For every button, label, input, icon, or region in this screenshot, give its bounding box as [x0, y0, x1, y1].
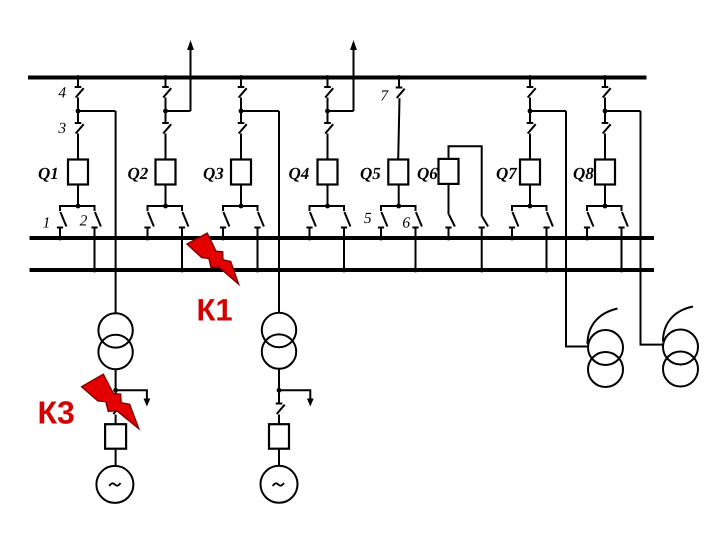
wire Q3 to lower disconnector [240, 111, 242, 123]
transformer T3 line tail [588, 309, 618, 345]
wire Q2 breaker to split [165, 185, 167, 207]
transformer T3 secondary winding [588, 352, 623, 387]
node Q1 on W3 [92, 268, 97, 273]
wire Q6 breaker to disconnector [448, 184, 450, 215]
node Q7 split [528, 204, 533, 209]
top busbar W1 [28, 76, 647, 80]
generator G2 tilde [273, 483, 284, 486]
circuit breaker Q1 [68, 160, 88, 185]
disconnector upper (Q8) [602, 87, 611, 98]
wire Q4 branch [328, 110, 354, 112]
node Q2 on W2 [145, 236, 150, 241]
svg-text:Q8: Q8 [573, 164, 594, 183]
wire chain1 to disconnector [115, 390, 117, 403]
svg-text:5: 5 [364, 210, 372, 227]
circuit breaker Q4 [318, 160, 338, 185]
node Q2 junction [163, 109, 168, 114]
wire Q3 split bar [223, 206, 258, 211]
bus selector disconnector left (Q2) [144, 212, 154, 228]
wire Q7 left to W2 [511, 228, 513, 239]
wire Q5 breaker to split [398, 185, 400, 207]
wire Q8 branch [605, 110, 641, 112]
svg-text:Q6: Q6 [417, 164, 438, 183]
node Q1 junction [76, 109, 81, 114]
wire T1 to node [115, 369, 117, 390]
circuit breaker Q7 [520, 160, 540, 185]
lower busbar W2 (section A) [30, 236, 655, 240]
wire Q4 to breaker [327, 134, 329, 160]
bus selector disconnector right (Q4) [341, 212, 351, 228]
node Q4 split [325, 204, 330, 209]
disconnector lower (Q3) [238, 123, 247, 134]
auxiliary tap wire chain1 [116, 390, 147, 399]
wire Q7 branch [530, 110, 566, 112]
wire chain2 to disconnector [278, 390, 280, 403]
bus selector disconnector right (Q3) [254, 212, 264, 228]
disconnector upper (Q4) [324, 87, 333, 98]
circuit breaker Q8 [595, 160, 615, 185]
wire Q1 to lower disconnector [77, 111, 79, 123]
transformer T1 primary winding [98, 313, 132, 347]
wire Q6 left to W2 [448, 228, 450, 239]
wire Q2 to breaker [165, 134, 167, 160]
outgoing line wire [353, 48, 355, 111]
wire Q5 to breaker [398, 98, 399, 159]
node Q8 on W2 [585, 236, 590, 241]
label 6 [402, 215, 410, 232]
transformer T1 secondary winding [98, 335, 132, 369]
bus selector disconnector right (Q2) [179, 212, 189, 228]
svg-text:Q5: Q5 [360, 164, 381, 183]
disconnector Q6 left [445, 215, 455, 228]
node Q8 split [603, 204, 608, 209]
wire Q4 right to W3 [343, 228, 345, 271]
wire Q8 breaker to split [604, 185, 606, 207]
label Q2 [128, 164, 149, 183]
wire Q1 branch to transformer T1 [115, 111, 117, 314]
transformer T3 primary winding [588, 330, 623, 365]
wire Q3 left to W2 [222, 228, 224, 239]
wire Q3 right to W3 [257, 228, 259, 271]
wire chain2 to generator [278, 449, 280, 466]
wire Q3 branch [241, 110, 279, 112]
wire Q4 split bar [310, 206, 345, 211]
svg-text:Q1: Q1 [38, 164, 59, 183]
bus selector disconnector left (Q3) [220, 212, 230, 228]
node on W1 for Q5 [397, 75, 402, 80]
svg-text:1: 1 [43, 215, 51, 232]
node on W1 for Q1 [76, 75, 81, 80]
wire Q8 to breaker [604, 134, 606, 160]
wire Q5 right to W3 [415, 228, 417, 271]
disconnector upper (Q1) [75, 87, 84, 98]
svg-text:4: 4 [58, 85, 66, 102]
generator G1 tilde [109, 483, 120, 486]
svg-text:Q3: Q3 [203, 164, 224, 183]
wire Q5 left to W2 [380, 228, 382, 239]
disconnector lower (Q4) [324, 123, 333, 134]
transformer T2 primary winding [262, 313, 296, 347]
wire Q3 branch to transformer T2 [278, 111, 280, 313]
bus selector disconnector 6 (Q5 right) [412, 212, 422, 228]
label 2 [80, 213, 88, 230]
bus selector disconnector right (Q8) [618, 212, 628, 228]
svg-text:К1: К1 [197, 293, 233, 328]
wire Q3 to junction [240, 98, 242, 112]
node Q4 on W2 [307, 236, 312, 241]
node Q1 split [76, 204, 81, 209]
outgoing line arrowhead [350, 40, 357, 50]
wire Q5 bus drop [398, 78, 400, 88]
wire Q2 split bar [148, 206, 183, 211]
wire Q6 jumper [449, 146, 482, 216]
node Q3 on W3 [255, 268, 260, 273]
auxiliary tap arrowhead chain1 [144, 399, 151, 407]
wire Q1 left to W2 [59, 228, 61, 239]
generator G1 [96, 466, 133, 503]
generator disconnector chain2 [276, 404, 285, 415]
node Q4 junction [325, 109, 330, 114]
wire Q7 branch to transformer T3 [566, 111, 588, 347]
svg-text:3: 3 [57, 120, 66, 137]
transformer T4 secondary winding [663, 352, 698, 387]
fault bolt K1 [187, 233, 239, 284]
circuit breaker Q3 [231, 160, 251, 185]
node Q3 on W2 [221, 236, 226, 241]
wire Q5 split bar [381, 206, 416, 211]
node Q6 on W3 [479, 268, 484, 273]
node Q7 on W2 [510, 236, 515, 241]
wire Q4 bus drop [327, 78, 329, 88]
outgoing line wire [190, 48, 192, 111]
bus selector disconnector right (Q1) [91, 212, 101, 228]
node Q5 split [396, 204, 401, 209]
disconnector lower (Q8) [602, 123, 611, 134]
bus selector disconnector 5 (Q5 left) [378, 212, 388, 228]
node Q2 split [163, 204, 168, 209]
label Q3 [203, 164, 224, 183]
generator G2 [261, 466, 298, 503]
disconnector upper (Q3) [238, 87, 247, 98]
disconnector upper (Q2) [162, 87, 171, 98]
label Q1 [38, 164, 59, 183]
label Q5 [360, 164, 381, 183]
node Q6 on W2 [446, 236, 451, 241]
disconnector upper (Q7) [527, 87, 536, 98]
wire Q7 right to W3 [546, 228, 548, 271]
disconnector lower (Q1) [75, 123, 84, 134]
node Q7 junction [528, 109, 533, 114]
wire Q7 to junction [529, 98, 531, 112]
wire Q1 breaker to split [77, 185, 79, 207]
wire Q1 branch [78, 110, 116, 112]
label 3 [57, 120, 66, 137]
label K1 [197, 293, 233, 328]
transformer T2 secondary winding [262, 334, 296, 368]
label 7 [380, 88, 389, 105]
wire Q8 to junction [604, 98, 606, 112]
auxiliary tap arrowhead chain2 [307, 399, 314, 407]
bus selector disconnector right (Q7) [543, 212, 553, 228]
reactor box chain1 [105, 424, 126, 449]
wire Q1 bus drop [77, 78, 79, 88]
disconnector lower (Q7) [527, 123, 536, 134]
wire Q4 to junction [327, 98, 329, 112]
transformer T4 primary winding [663, 330, 698, 365]
wire Q8 split bar [587, 206, 622, 211]
wire Q4 breaker to split [327, 185, 329, 207]
wire Q1 to junction [77, 98, 79, 112]
disconnector lower (Q2) [162, 123, 171, 134]
wire Q8 right to W3 [621, 228, 623, 271]
outgoing line arrowhead [187, 40, 194, 50]
label Q4 [289, 164, 310, 183]
node Q3 split [239, 204, 244, 209]
node Q4 on W3 [342, 268, 347, 273]
wire Q2 right to W3 [181, 228, 183, 271]
wire Q4 left to W2 [309, 228, 311, 239]
bus selector disconnector left (Q8) [584, 212, 594, 228]
generator disconnector chain1 [112, 404, 121, 415]
wire chain2 to reactor [278, 415, 280, 425]
circuit breaker Q2 [156, 160, 176, 185]
svg-text:Q4: Q4 [289, 164, 310, 183]
wire Q7 to breaker [529, 134, 531, 160]
wire T2 to node [278, 369, 280, 391]
disconnector Q6 right [479, 217, 489, 228]
wire Q2 to lower disconnector [165, 111, 167, 123]
node Q1 on W2 [58, 236, 63, 241]
bus selector disconnector left (Q7) [509, 212, 519, 228]
lower busbar W3 (section B) [30, 268, 655, 272]
wire Q2 branch [166, 110, 191, 112]
bus selector disconnector left (Q4) [306, 212, 316, 228]
wire Q7 bus drop [529, 78, 531, 88]
wire Q7 split bar [512, 206, 547, 211]
label Q6 [417, 164, 438, 183]
wire Q8 bus drop [604, 78, 606, 88]
wire Q3 bus drop [240, 78, 242, 88]
auxiliary tap wire chain2 [279, 390, 310, 399]
node chain1 tap [113, 388, 118, 393]
wire Q7 breaker to split [529, 185, 531, 207]
node on W1 for Q3 [239, 75, 244, 80]
svg-text:6: 6 [402, 215, 410, 232]
fault bolt K3 [82, 374, 139, 429]
node chain2 tap [277, 388, 282, 393]
wire Q1 right to W3 [94, 228, 96, 271]
transformer T4 line tail [663, 307, 693, 342]
svg-text:Q2: Q2 [128, 164, 149, 183]
bus selector disconnector left (Q1) [57, 212, 67, 228]
node Q3 junction [239, 109, 244, 114]
label 4 [58, 85, 66, 102]
circuit breaker Q5 [388, 160, 408, 185]
node Q8 on W3 [619, 268, 624, 273]
wire Q1 split bar [60, 206, 95, 211]
label K3 [38, 394, 75, 430]
node on W1 for Q8 [603, 75, 608, 80]
node Q5 on W3 [413, 268, 418, 273]
wire chain1 to reactor [115, 415, 117, 425]
node Q2 on W3 [180, 268, 185, 273]
disconnector 7 (Q5) [396, 88, 405, 99]
label Q8 [573, 164, 594, 183]
reactor box chain2 [269, 424, 289, 449]
label Q7 [496, 164, 518, 183]
wire chain1 to generator [115, 449, 117, 466]
node Q8 junction [603, 109, 608, 114]
wire Q2 bus drop [165, 78, 167, 88]
svg-text:2: 2 [80, 213, 88, 230]
node on W1 for Q7 [528, 75, 533, 80]
label 1 [43, 215, 51, 232]
wire Q8 to lower disconnector [604, 111, 606, 123]
wire Q8 branch to transformer T4 [641, 111, 664, 345]
node on W1 for Q4 [325, 75, 330, 80]
svg-text:Q7: Q7 [496, 164, 518, 183]
wire Q1 to breaker [77, 134, 79, 160]
svg-text:7: 7 [380, 88, 389, 105]
wire Q6 right to W3 [481, 228, 483, 271]
wire Q4 to lower disconnector [327, 111, 329, 123]
circuit breaker Q6 [439, 159, 459, 184]
wire Q2 left to W2 [147, 228, 149, 239]
svg-text:К3: К3 [38, 394, 75, 430]
label 5 [364, 210, 372, 227]
wire Q3 breaker to split [240, 185, 242, 207]
wire Q2 to junction [165, 98, 167, 112]
node on W1 for Q2 [163, 75, 168, 80]
wire Q3 to breaker [240, 134, 242, 160]
node Q7 on W3 [544, 268, 549, 273]
node Q5 on W2 [379, 236, 384, 241]
wire Q8 left to W2 [586, 228, 588, 239]
wire Q7 to lower disconnector [529, 111, 531, 123]
